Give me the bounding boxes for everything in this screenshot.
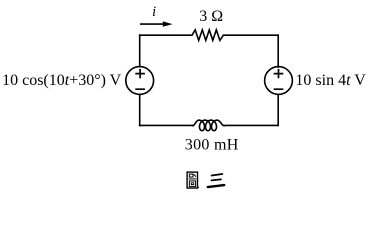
svg-text:300 mH: 300 mH [185,137,239,154]
svg-text:10 cos(10t+30°) V: 10 cos(10t+30°) V [2,72,122,89]
svg-text:i: i [152,4,156,20]
svg-text:10 sin 4t V: 10 sin 4t V [295,72,366,89]
svg-text:3 Ω: 3 Ω [199,8,223,25]
